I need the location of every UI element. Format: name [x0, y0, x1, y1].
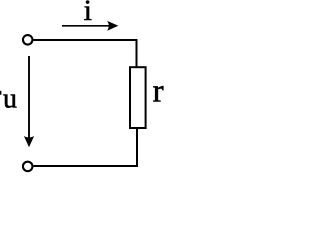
svg-text:r: r	[153, 74, 164, 110]
wire (bottom: resistor bottom to node B)	[33, 129, 137, 166]
terminal node A (top-left, open circle)	[23, 35, 33, 45]
current arrow i (reference direction, pointing right)	[62, 21, 118, 31]
wire (top: node A to resistor top)	[33, 40, 136, 66]
voltage arrow u (reference direction, pointing down)	[24, 56, 34, 147]
resistor r (rectangle body)	[130, 67, 146, 128]
svg-text:i: i	[84, 0, 92, 27]
cut-off polarity mark fragment at left edge	[0, 91, 1, 95]
terminal node B (bottom-left, open circle)	[23, 162, 33, 172]
svg-text:u: u	[3, 84, 17, 115]
